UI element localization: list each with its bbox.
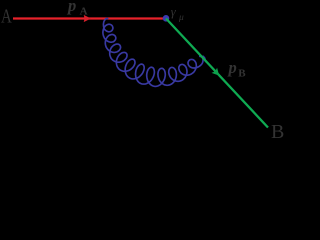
svg-text:p: p [227, 58, 237, 77]
svg-text:μ: μ [178, 13, 184, 23]
gluon (coiled line between the two fermion legs) [103, 18, 206, 86]
svg-text:A: A [1, 6, 12, 28]
svg-text:B: B [238, 68, 246, 80]
arrow: momentum direction on line B [212, 68, 220, 76]
wire: incoming fermion line from A [13, 17, 166, 19]
svg-text:B: B [271, 121, 284, 141]
arrow: momentum direction on line A [84, 15, 91, 22]
vertex gamma_mu (blue dot) [163, 15, 170, 22]
wire: outgoing fermion line to B [166, 19, 268, 128]
svg-text:A: A [80, 5, 88, 17]
svg-text:p: p [66, 0, 76, 15]
svg-text:γ: γ [171, 5, 177, 19]
